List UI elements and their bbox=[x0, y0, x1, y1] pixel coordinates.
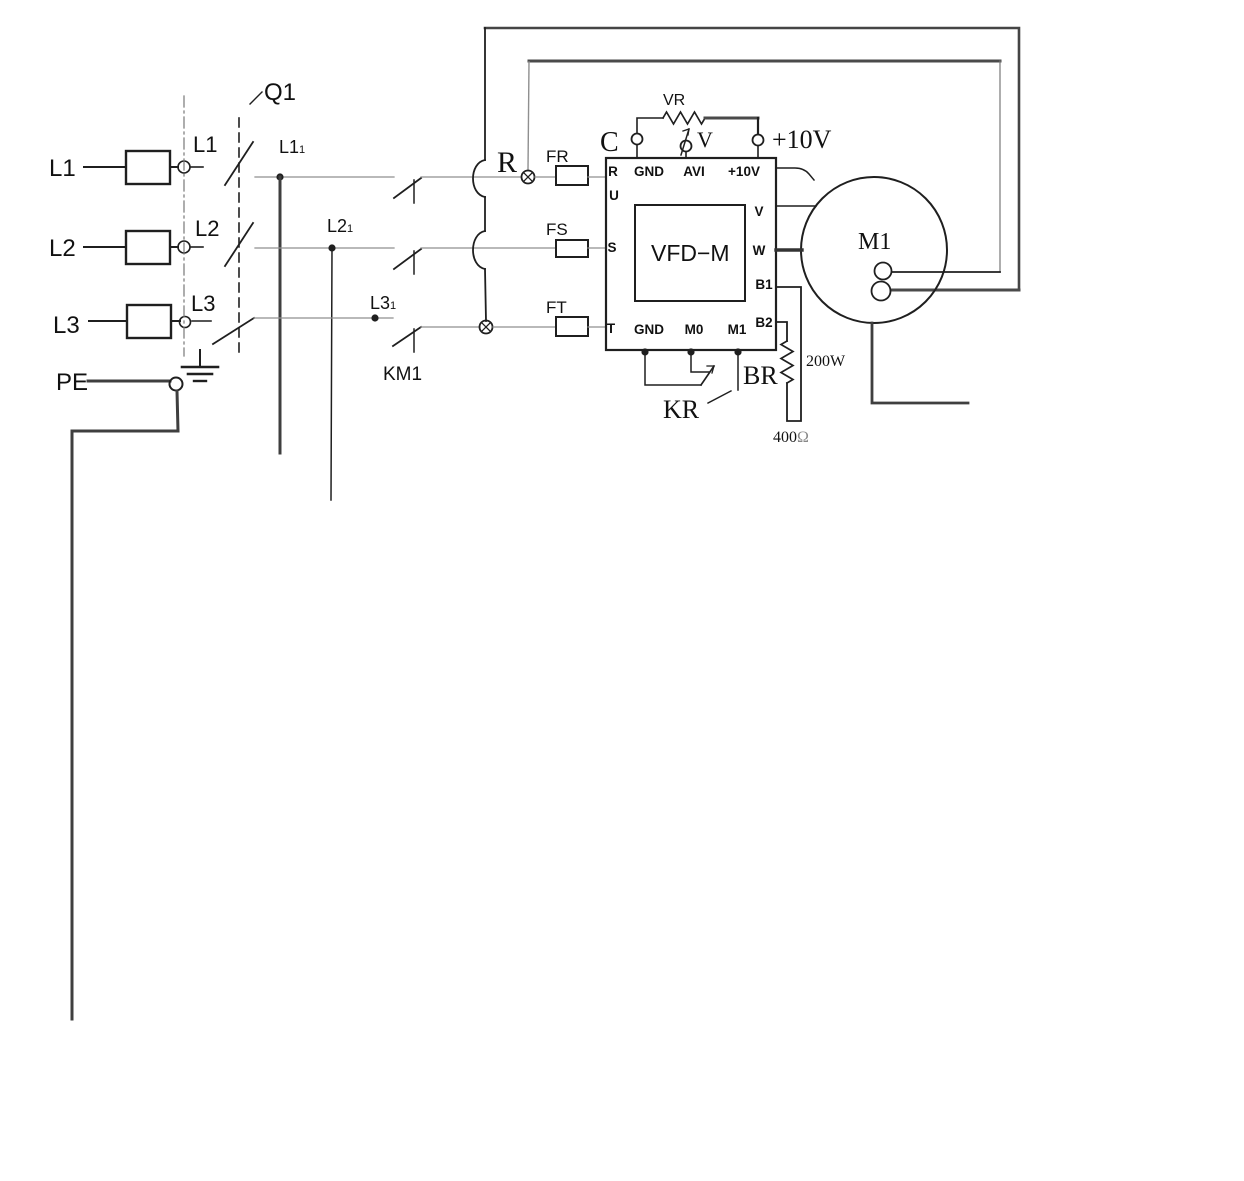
svg-text:B2: B2 bbox=[755, 315, 772, 330]
node L2_1 dot bbox=[328, 244, 335, 251]
inner loop top wire bbox=[529, 60, 1000, 63]
svg-text:L2: L2 bbox=[49, 235, 76, 262]
contactor KM1 pole 2 blade bbox=[394, 249, 421, 269]
PE down wire to left bus bbox=[72, 391, 178, 1019]
outer loop wire to motor lower terminal bbox=[891, 289, 1019, 292]
inner loop right drop bbox=[999, 61, 1001, 272]
braking resistor BR zigzag bbox=[781, 341, 793, 383]
wire stub bbox=[191, 166, 203, 168]
potentiometer VR zigzag bbox=[663, 112, 705, 124]
wire L2 to fuse bbox=[84, 246, 126, 248]
VFD drive box U1 bbox=[606, 158, 776, 350]
svg-text:FS: FS bbox=[546, 220, 568, 239]
svg-text:KR: KR bbox=[663, 395, 700, 424]
wire L3 after Q1 bbox=[254, 317, 393, 319]
svg-text:FT: FT bbox=[546, 298, 567, 317]
switch Q1 pole L1 blade bbox=[225, 142, 253, 185]
svg-text:GND: GND bbox=[634, 322, 664, 337]
svg-text:200W: 200W bbox=[806, 353, 846, 370]
wire bbox=[170, 246, 178, 248]
terminal circle L2 bbox=[178, 241, 190, 253]
svg-text:S: S bbox=[607, 240, 616, 255]
wire VR to +10V node bbox=[705, 117, 758, 120]
wire B2 to resistor bbox=[776, 322, 787, 341]
feeder wire L1_1 down bbox=[279, 177, 282, 453]
fuse FR bbox=[556, 166, 588, 185]
fuse FT bbox=[556, 317, 588, 336]
switch Q1 pole L3 blade bbox=[213, 318, 254, 344]
motor terminal lower bbox=[872, 282, 891, 301]
svg-text:BR: BR bbox=[743, 361, 778, 390]
motor M1 bbox=[801, 177, 947, 323]
VFD inner box bbox=[635, 205, 745, 301]
svg-text:L1: L1 bbox=[49, 155, 76, 182]
contactor KM1 pole 3 blade bbox=[393, 327, 421, 346]
svg-text:400Ω: 400Ω bbox=[773, 429, 809, 446]
wire bbox=[171, 320, 180, 322]
AVI wiper node bbox=[681, 141, 692, 152]
node T connection bbox=[480, 321, 493, 334]
wire stub bbox=[191, 246, 203, 248]
svg-text:PE: PE bbox=[56, 369, 88, 396]
wire R node to FR bbox=[535, 176, 556, 178]
svg-text:T: T bbox=[607, 321, 616, 336]
svg-text:R: R bbox=[608, 164, 618, 179]
wire T node to FT bbox=[493, 326, 556, 328]
node L1_1 dot bbox=[276, 173, 283, 180]
svg-text:R: R bbox=[497, 146, 517, 179]
terminal circle L1 bbox=[178, 161, 190, 173]
svg-text:M0: M0 bbox=[685, 322, 704, 337]
svg-text:L21: L21 bbox=[327, 216, 353, 236]
Q1 mechanical dashed link bbox=[238, 118, 240, 358]
inner loop left drop bbox=[528, 62, 529, 170]
svg-text:M1: M1 bbox=[858, 229, 891, 255]
svg-text:W: W bbox=[753, 243, 766, 258]
svg-text:KM1: KM1 bbox=[383, 364, 422, 385]
switch Q1 pole L2 blade bbox=[225, 223, 253, 266]
svg-text:V: V bbox=[754, 204, 763, 219]
disconnect dash-dot line bbox=[183, 96, 185, 356]
wire L1 after Q1 bbox=[255, 176, 394, 178]
wire B1 loop bbox=[776, 287, 801, 421]
wire to R node bbox=[421, 176, 521, 178]
svg-text:VR: VR bbox=[663, 92, 685, 109]
svg-text:L31: L31 bbox=[370, 293, 396, 313]
node C circle bbox=[632, 134, 643, 145]
motor terminal upper bbox=[875, 263, 892, 280]
fuse FU L3 bbox=[127, 305, 171, 338]
svg-text:L3: L3 bbox=[53, 312, 80, 339]
svg-text:L1: L1 bbox=[193, 132, 217, 157]
relay KR contact at M0 bbox=[645, 352, 701, 385]
left drop wire with hops bbox=[484, 28, 486, 160]
node R connection bbox=[522, 171, 535, 184]
svg-text:AVI: AVI bbox=[683, 164, 705, 179]
wire motor upper terminal to inner loop bbox=[892, 271, 1000, 273]
svg-text:+10V: +10V bbox=[728, 164, 760, 179]
Q1 label tick bbox=[250, 92, 262, 104]
wire W to motor bbox=[776, 248, 802, 251]
svg-text:Q1: Q1 bbox=[264, 79, 296, 106]
wire stub bbox=[192, 320, 211, 322]
PE terminal circle bbox=[170, 378, 183, 391]
svg-text:VFD−M: VFD−M bbox=[651, 240, 730, 266]
outer loop top wire bbox=[485, 28, 1019, 290]
wire to T crossing node bbox=[421, 326, 480, 328]
svg-text:M1: M1 bbox=[728, 322, 747, 337]
svg-text:FR: FR bbox=[546, 147, 569, 166]
node +10V circle bbox=[753, 135, 764, 146]
contactor KM1 pole 1 blade bbox=[394, 178, 421, 198]
feeder wire L2_1 down to F2 bbox=[331, 248, 332, 500]
svg-text:C: C bbox=[600, 127, 619, 158]
VFD bottom terminals dots bbox=[641, 348, 648, 355]
svg-text:V: V bbox=[697, 127, 713, 152]
wire motor bottom to screw block bbox=[872, 323, 968, 403]
svg-text:L11: L11 bbox=[279, 137, 305, 157]
wire V to motor bbox=[776, 205, 816, 207]
svg-text:B1: B1 bbox=[755, 277, 773, 292]
node L3_1 dot bbox=[371, 314, 378, 321]
wire C up to VR bbox=[637, 118, 663, 133]
svg-text:L3: L3 bbox=[191, 291, 215, 316]
svg-text:GND: GND bbox=[634, 164, 664, 179]
wire L1 to fuse bbox=[84, 166, 126, 168]
svg-text:+10V: +10V bbox=[772, 125, 832, 154]
wire +10V terminal to motor bbox=[776, 168, 814, 180]
PE wire bbox=[88, 380, 170, 383]
ground at Q1 bbox=[199, 350, 201, 367]
wire to FS bbox=[421, 247, 556, 249]
wire bbox=[170, 166, 178, 168]
svg-text:L2: L2 bbox=[195, 216, 219, 241]
fuse FU L2 bbox=[126, 231, 170, 264]
svg-text:U: U bbox=[609, 188, 619, 203]
fuse FU L1 bbox=[126, 151, 170, 184]
fuse FS bbox=[556, 240, 588, 257]
terminal circle L3 bbox=[180, 317, 191, 328]
wire L3 to fuse bbox=[89, 320, 127, 322]
wire L2 after Q1 bbox=[255, 247, 394, 249]
VFD terminal labels bbox=[607, 164, 773, 337]
